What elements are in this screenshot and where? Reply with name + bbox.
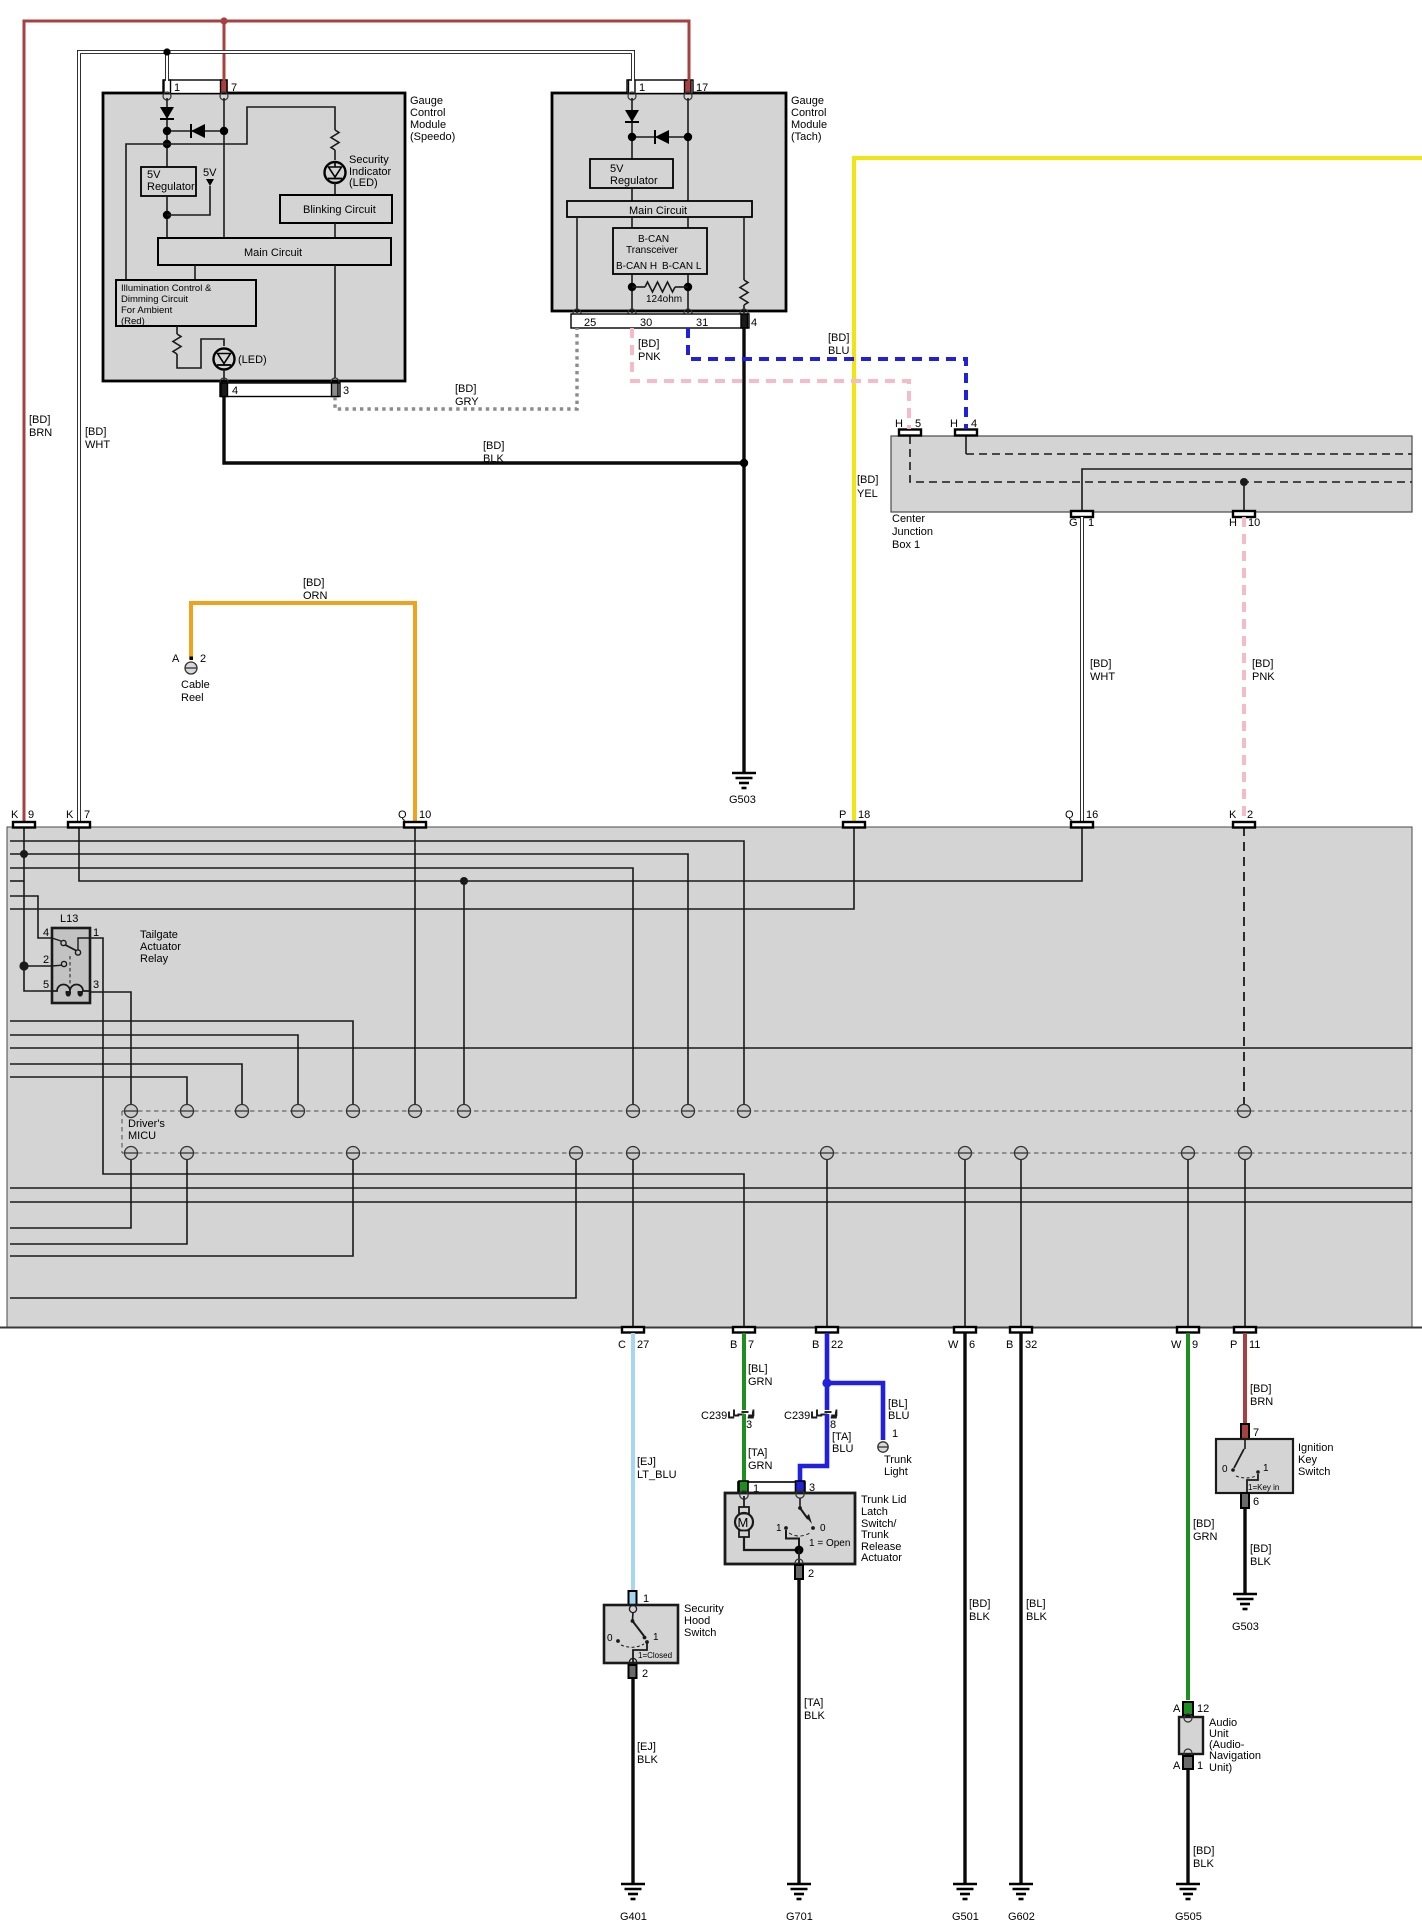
box B-CAN Transceiver — [613, 228, 707, 274]
svg-text:12: 12 — [1197, 1703, 1209, 1715]
wires main circuit to B-CAN transceiver — [632, 217, 688, 228]
svg-text:1: 1 — [643, 1593, 649, 1605]
band horizontal bus wires — [10, 827, 1412, 1327]
wire K9 to relay pin2 — [24, 965, 52, 967]
svg-text:32: 32 — [1025, 1339, 1037, 1351]
wire circle633 to C27 — [632, 1160, 634, 1327]
connector pin H 4 — [950, 418, 977, 436]
svg-text:5: 5 — [43, 979, 49, 991]
svg-text:K: K — [66, 809, 74, 821]
wire [BD] PNK from H10 to K2 — [1244, 517, 1275, 822]
latch switch internals — [776, 1498, 850, 1580]
ground G505 — [1176, 1884, 1200, 1899]
svg-text:WHT: WHT — [1090, 671, 1115, 683]
5V arrow tap — [167, 167, 217, 215]
svg-text:GRY: GRY — [455, 396, 479, 408]
wire y1048 full width — [10, 1047, 1412, 1049]
relay coil — [52, 985, 90, 996]
svg-text:Control: Control — [791, 107, 826, 119]
svg-text:[BD]: [BD] — [483, 440, 504, 452]
svg-text:C239: C239 — [701, 1410, 727, 1422]
svg-text:P: P — [1230, 1339, 1237, 1351]
connector bar B 7 — [730, 1327, 755, 1351]
label [BD] ORN — [303, 577, 328, 602]
svg-text:Switch: Switch — [1298, 1466, 1330, 1478]
svg-text:2: 2 — [808, 1568, 814, 1580]
svg-text:PNK: PNK — [638, 351, 661, 363]
wires B-CAN H/L down — [632, 274, 688, 313]
svg-text:7: 7 — [1253, 1427, 1259, 1439]
LED security indicator — [325, 150, 392, 195]
svg-text:Transceiver: Transceiver — [626, 245, 679, 256]
svg-text:B: B — [730, 1339, 737, 1351]
wire circle131 down-left — [10, 1160, 131, 1228]
svg-text:5V: 5V — [610, 163, 624, 175]
connector bar C 27 — [618, 1327, 649, 1351]
resistor below illumination box — [173, 326, 181, 354]
wire to security resistor — [167, 107, 335, 144]
svg-text:Q: Q — [398, 809, 407, 821]
svg-text:Actuator: Actuator — [140, 941, 181, 953]
wire relay pin4 stub — [10, 896, 52, 938]
connector strip bottom (pins 25,30,31,4) — [571, 309, 757, 329]
connector bar P 11 — [1230, 1327, 1260, 1351]
svg-text:10: 10 — [419, 809, 431, 821]
svg-text:(Speedo): (Speedo) — [410, 131, 455, 143]
ground G602 — [1009, 1884, 1033, 1899]
wire relay pin3 to circle 131 — [90, 992, 131, 1104]
node maroon junction — [220, 17, 227, 24]
svg-text:7: 7 — [748, 1339, 754, 1351]
connector bar B 32 — [1006, 1327, 1037, 1351]
svg-text:ORN: ORN — [303, 590, 328, 602]
wire main circuit to illumination box — [194, 265, 196, 280]
svg-text:BLK: BLK — [1193, 1858, 1214, 1870]
svg-text:22: 22 — [831, 1339, 843, 1351]
svg-text:Box 1: Box 1 — [892, 539, 920, 551]
wire main circuit left to pin 25 — [576, 217, 578, 313]
svg-text:GRN: GRN — [1193, 1531, 1218, 1543]
wire [BD] GRN from W9 to audio unit — [1188, 1333, 1218, 1700]
connector bar K 2 — [1229, 809, 1255, 828]
svg-text:Blinking Circuit: Blinking Circuit — [303, 204, 376, 216]
svg-text:16: 16 — [1086, 809, 1098, 821]
wire K7 to Q16 white net — [79, 827, 1082, 881]
ground G701 — [787, 1884, 811, 1899]
connector bar W 9 — [1171, 1327, 1199, 1351]
svg-text:BLK: BLK — [637, 1754, 658, 1766]
wire circle353 down-left — [10, 1160, 353, 1256]
wire [BD] ORN orange — [191, 603, 415, 822]
label [BD] BLK — [483, 440, 504, 465]
svg-text:WHT: WHT — [85, 439, 110, 451]
svg-text:Trunk: Trunk — [861, 1529, 889, 1541]
svg-text:Navigation: Navigation — [1209, 1750, 1261, 1762]
svg-text:Main Circuit: Main Circuit — [244, 247, 302, 259]
svg-text:Hood: Hood — [684, 1615, 710, 1627]
svg-text:4: 4 — [43, 927, 49, 939]
svg-text:[BD]: [BD] — [857, 474, 878, 486]
diode D1 on pin1 line — [160, 107, 174, 119]
svg-text:B-CAN H: B-CAN H — [616, 261, 657, 272]
wire circle1188 to W9 — [1187, 1160, 1189, 1327]
connector pins row 1 MICU — [125, 1105, 1251, 1118]
svg-text:Security: Security — [349, 154, 389, 166]
svg-text:[BD]: [BD] — [638, 338, 659, 350]
svg-text:5V: 5V — [203, 167, 217, 179]
connector strip bottom (pins 4,3) — [220, 378, 349, 397]
component Ignition Key Switch — [1216, 1424, 1333, 1508]
wire y1202 full width — [10, 1201, 1412, 1203]
svg-text:9: 9 — [1192, 1339, 1198, 1351]
svg-text:Key: Key — [1298, 1454, 1317, 1466]
svg-text:(LED): (LED) — [349, 177, 378, 189]
svg-text:0: 0 — [1222, 1464, 1228, 1475]
wire circle1245 to P11 — [1244, 1160, 1246, 1327]
svg-text:Trunk: Trunk — [884, 1454, 912, 1466]
svg-text:25: 25 — [584, 317, 596, 329]
svg-text:Gauge: Gauge — [410, 95, 443, 107]
svg-text:(Tach): (Tach) — [791, 131, 822, 143]
svg-text:[BD]: [BD] — [828, 332, 849, 344]
svg-text:Cable: Cable — [181, 679, 210, 691]
module Gauge Control Module (Speedo) — [103, 93, 455, 381]
connector pin G 1 — [1069, 511, 1094, 529]
svg-text:Control: Control — [410, 107, 445, 119]
svg-text:BLU: BLU — [888, 1410, 909, 1422]
connector bar Q 16 — [1065, 809, 1098, 828]
wire [BD] BLK thick from speedo pin4 — [224, 397, 744, 463]
svg-text:PNK: PNK — [1252, 671, 1275, 683]
svg-text:(Red): (Red) — [121, 316, 145, 327]
svg-text:Trunk Lid: Trunk Lid — [861, 1494, 906, 1506]
wire circle576 down-left — [10, 1160, 576, 1298]
svg-text:BLK: BLK — [804, 1710, 825, 1722]
box Main Circuit (speedo) — [158, 238, 391, 265]
svg-text:4: 4 — [751, 317, 757, 329]
wire H4 internal dashed — [966, 436, 1412, 454]
svg-text:[BL]: [BL] — [748, 1363, 768, 1375]
wire [TA] GRN to latch pin1 — [744, 1414, 773, 1483]
wire left rail to Illumination box — [126, 144, 167, 280]
wire K9 rail vertical — [24, 827, 52, 991]
wire circle187 down-left — [10, 1160, 187, 1244]
svg-text:1: 1 — [776, 1523, 782, 1534]
svg-text:K: K — [1229, 809, 1237, 821]
svg-text:17: 17 — [696, 82, 708, 94]
wire y1064 to circle 242 — [10, 1064, 242, 1104]
svg-text:BLK: BLK — [483, 453, 504, 465]
wire [BD] YEL yellow — [854, 158, 1422, 822]
svg-text:2: 2 — [43, 954, 49, 966]
svg-text:[BD]: [BD] — [1090, 658, 1111, 670]
node blue junction — [822, 1378, 831, 1387]
wire Q10 drop — [414, 827, 416, 1104]
svg-text:Switch: Switch — [684, 1627, 716, 1639]
svg-text:G503: G503 — [729, 794, 756, 806]
svg-text:Regulator: Regulator — [610, 175, 658, 187]
wire G1 internal solid — [1082, 469, 1412, 511]
svg-text:1=Closed: 1=Closed — [638, 1651, 672, 1660]
svg-text:G701: G701 — [786, 1911, 813, 1923]
label [BL] BLU — [888, 1398, 909, 1422]
node 5V junction — [163, 211, 171, 219]
svg-text:3: 3 — [746, 1419, 752, 1431]
svg-text:[BD]: [BD] — [455, 383, 476, 395]
svg-text:124ohm: 124ohm — [646, 294, 682, 305]
svg-text:Center: Center — [892, 513, 925, 525]
label [BD] YEL — [857, 474, 878, 500]
svg-text:Light: Light — [884, 1466, 908, 1478]
ground G503 (ignition) — [1233, 1594, 1257, 1609]
wire y881 stub to K9 rail — [10, 880, 24, 882]
label [BD] BLU — [828, 332, 849, 357]
svg-text:Dimming Circuit: Dimming Circuit — [121, 294, 188, 305]
wire y1035 to circle 298 — [10, 1035, 298, 1104]
wire [BD] PNK dashed tach pin30 to H5 — [632, 328, 909, 429]
svg-text:[BL]: [BL] — [1026, 1598, 1046, 1610]
label [BD] WHT — [85, 426, 110, 451]
svg-text:H: H — [1229, 517, 1237, 529]
svg-text:[BD]: [BD] — [1193, 1845, 1214, 1857]
svg-text:B: B — [1006, 1339, 1013, 1351]
svg-text:[BD]: [BD] — [29, 414, 50, 426]
wire pin1 internal — [166, 98, 168, 167]
svg-text:[BD]: [BD] — [1250, 1383, 1271, 1395]
svg-text:P: P — [839, 809, 846, 821]
svg-text:0: 0 — [607, 1633, 613, 1644]
wire [BD] GRY dotted speedo pin3 to tach pin25 — [335, 328, 577, 409]
svg-text:G505: G505 — [1175, 1911, 1202, 1923]
svg-text:G602: G602 — [1008, 1911, 1035, 1923]
wire [BL] BLK from B32 to G602 — [1021, 1333, 1047, 1884]
wire main circuit right to pin 4 with resistor — [740, 217, 748, 313]
wire [BD] BLK audio to G505 — [1188, 1769, 1214, 1884]
svg-text:Relay: Relay — [140, 953, 169, 965]
svg-text:[BD]: [BD] — [1252, 658, 1273, 670]
box 5V Regulator (speedo) — [141, 167, 196, 196]
svg-text:M: M — [738, 1515, 749, 1530]
wire [BD] BRN maroon top — [24, 21, 689, 822]
wire y854 to circle 688 — [10, 854, 688, 1104]
svg-text:1: 1 — [1197, 1760, 1203, 1772]
wire circle1021 to B32 — [1020, 1160, 1022, 1327]
svg-text:0: 0 — [820, 1523, 826, 1534]
svg-text:Junction: Junction — [892, 526, 933, 538]
connector C239 (B7) — [701, 1410, 754, 1432]
svg-text:YEL: YEL — [857, 488, 878, 500]
svg-text:3: 3 — [343, 385, 349, 397]
svg-text:7: 7 — [84, 809, 90, 821]
motor M in latch — [735, 1496, 799, 1550]
wire [BD] BLK ignition to G503 — [1245, 1508, 1271, 1594]
svg-text:[TA]: [TA] — [748, 1447, 767, 1459]
svg-text:[TA]: [TA] — [804, 1697, 823, 1709]
svg-text:Tailgate: Tailgate — [140, 929, 178, 941]
svg-text:K: K — [11, 809, 19, 821]
svg-text:B-CAN: B-CAN — [638, 234, 669, 245]
svg-text:11: 11 — [1249, 1339, 1260, 1351]
ground G401 — [621, 1884, 645, 1899]
wire main circuit to pin3 — [334, 265, 336, 378]
svg-text:GRN: GRN — [748, 1460, 773, 1472]
svg-text:Ignition: Ignition — [1298, 1442, 1333, 1454]
connector strip top (pins 1,17) — [627, 80, 708, 100]
relay internal switch — [52, 938, 90, 986]
svg-text:[BD]: [BD] — [1250, 1543, 1271, 1555]
wire K2 dashed drop to circle 1244 — [1243, 827, 1245, 1104]
connector bar W 6 — [948, 1327, 976, 1351]
svg-text:H: H — [950, 418, 958, 430]
svg-text:A: A — [1173, 1760, 1181, 1772]
svg-text:1: 1 — [892, 1428, 898, 1440]
svg-text:Unit): Unit) — [1209, 1762, 1232, 1774]
Driver's MICU dashed outline — [122, 1111, 1412, 1153]
component Security Hood Switch — [604, 1591, 724, 1680]
wire resistor to LED (S-bend) — [177, 339, 224, 368]
label [BD] BRN — [29, 414, 52, 439]
wire relay pin1 to B7 — [90, 938, 744, 1327]
box 5V Regulator (tach) — [590, 159, 673, 201]
svg-text:10: 10 — [1248, 517, 1260, 529]
svg-text:Main Circuit: Main Circuit — [629, 205, 687, 217]
svg-text:5V: 5V — [147, 169, 161, 181]
box Illumination Control & Dimming Circuit — [116, 280, 256, 327]
svg-text:A: A — [1173, 1703, 1181, 1715]
svg-text:8: 8 — [830, 1419, 836, 1431]
wire tach pin4 to G503 — [740, 328, 748, 772]
wire [BD] WHT white top — [79, 52, 633, 822]
svg-text:BLU: BLU — [828, 345, 849, 357]
svg-text:9: 9 — [28, 809, 34, 821]
connector strip top (pins 1,7) — [163, 80, 237, 100]
svg-text:[BD]: [BD] — [85, 426, 106, 438]
svg-text:[EJ]: [EJ] — [637, 1741, 656, 1753]
svg-text:B-CAN L: B-CAN L — [662, 261, 702, 272]
svg-text:A: A — [172, 653, 180, 665]
svg-text:BLK: BLK — [1250, 1556, 1271, 1568]
svg-text:1: 1 — [653, 1632, 659, 1643]
svg-text:27: 27 — [637, 1339, 649, 1351]
connector bar P 18 — [839, 809, 870, 828]
ground G503 — [732, 773, 756, 788]
svg-text:[BD]: [BD] — [969, 1598, 990, 1610]
wire y1188 full width — [10, 1187, 1412, 1189]
label [BD] PNK — [638, 338, 661, 363]
svg-text:1=Key in: 1=Key in — [1248, 1483, 1279, 1492]
ground G501 — [953, 1884, 977, 1899]
connector bar K 7 — [66, 809, 90, 828]
svg-text:Regulator: Regulator — [147, 181, 195, 193]
svg-text:1: 1 — [93, 927, 99, 939]
component Trunk Lid Latch Switch / Trunk Release Actuator — [725, 1481, 906, 1564]
svg-text:G503: G503 — [1232, 1621, 1259, 1633]
wire H5 internal dashed — [910, 436, 1412, 482]
svg-text:BRN: BRN — [1250, 1396, 1273, 1408]
svg-text:G401: G401 — [620, 1911, 647, 1923]
wire [BD] BLU dashed tach pin31 to H4 — [688, 328, 966, 429]
svg-text:18: 18 — [858, 809, 870, 821]
svg-text:B: B — [812, 1339, 819, 1351]
wire [BD] BLK from W6 to G501 — [965, 1333, 990, 1884]
component Cable Reel — [172, 653, 210, 704]
node junction pin1/left rail — [163, 140, 171, 148]
label [TA] BLU — [832, 1431, 853, 1455]
svg-text:[TA]: [TA] — [832, 1431, 851, 1443]
svg-text:5: 5 — [915, 418, 921, 430]
wire WHT net drop to circle 464 — [463, 881, 465, 1104]
svg-text:Module: Module — [410, 119, 446, 131]
wire tach pin1 internal — [631, 98, 633, 159]
svg-text:C: C — [618, 1339, 626, 1351]
svg-text:1: 1 — [174, 82, 180, 94]
svg-text:Security: Security — [684, 1603, 724, 1615]
connector bar K 9 — [11, 809, 35, 828]
Center Junction Box 1 — [891, 436, 1412, 551]
resistor security indicator — [331, 130, 339, 150]
wire pin7 internal — [223, 98, 225, 238]
wire [BD] WHT from G1 to Q16 — [1082, 517, 1115, 822]
svg-text:Reel: Reel — [181, 692, 204, 704]
svg-text:For Ambient: For Ambient — [121, 305, 173, 316]
wire 5V regulator to main circuit — [166, 196, 168, 238]
svg-text:Gauge: Gauge — [791, 95, 824, 107]
svg-text:LT_BLU: LT_BLU — [637, 1469, 677, 1481]
diode D4 horizontal (tach) — [628, 130, 692, 144]
svg-text:(LED): (LED) — [238, 354, 267, 366]
svg-text:2: 2 — [1247, 809, 1253, 821]
connector C239 (B22) — [784, 1410, 837, 1432]
svg-text:4: 4 — [971, 418, 977, 430]
wire [BL] BLU from B22 — [827, 1333, 883, 1440]
svg-text:7: 7 — [231, 82, 237, 94]
connector bar Q 10 — [398, 809, 431, 828]
svg-text:[BL]: [BL] — [888, 1398, 908, 1410]
svg-text:GRN: GRN — [748, 1376, 773, 1388]
wire [BD] BRN from P11 to ignition — [1245, 1333, 1273, 1424]
svg-text:31: 31 — [696, 317, 708, 329]
svg-text:1: 1 — [1088, 517, 1094, 529]
connector bar B 22 — [812, 1327, 843, 1351]
svg-text:6: 6 — [969, 1339, 975, 1351]
svg-text:4: 4 — [232, 385, 238, 397]
svg-text:1: 1 — [639, 82, 645, 94]
wire [BL] GRN from B7 — [744, 1333, 773, 1410]
wire circle827 to B22 — [826, 1160, 828, 1327]
svg-text:W: W — [948, 1339, 959, 1351]
svg-text:Illumination Control &: Illumination Control & — [121, 283, 212, 294]
junction node on H5 line — [1240, 478, 1248, 511]
module Gauge Control Module (Tach) — [552, 93, 827, 311]
wire y1021 to circle 353 — [10, 1021, 353, 1104]
resistor 124ohm — [628, 282, 692, 305]
connector pins row 2 MICU — [125, 1147, 1252, 1160]
svg-text:3: 3 — [93, 979, 99, 991]
relay L13 Tailgate Actuator Relay — [43, 913, 181, 1003]
svg-text:W: W — [1171, 1339, 1182, 1351]
svg-text:G501: G501 — [952, 1911, 979, 1923]
connector pin H 10 — [1229, 511, 1260, 529]
svg-text:1: 1 — [1263, 1463, 1269, 1474]
svg-text:MICU: MICU — [128, 1130, 156, 1142]
component Trunk Light — [878, 1428, 912, 1478]
svg-text:Actuator: Actuator — [861, 1552, 902, 1564]
diode D2 horizontal between pin1 and pin7 lines — [163, 124, 228, 138]
wire y868 to circle 633 — [10, 868, 633, 1104]
wire [TA] BLU to latch pin3 — [800, 1414, 827, 1483]
wire y841 to circle 744 — [10, 841, 744, 1104]
svg-text:BLK: BLK — [969, 1611, 990, 1623]
